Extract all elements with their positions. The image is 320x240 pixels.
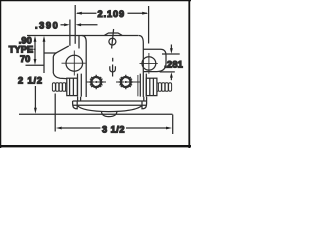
base center bump — [102, 112, 117, 117]
border frame — [0, 0, 191, 148]
3 1/2 left extension line — [54, 94, 56, 132]
psi mark on centerline — [110, 65, 116, 77]
svg-text:70: 70 — [20, 54, 30, 64]
base step right — [144, 97, 147, 101]
dimension .281 lower arrow — [170, 72, 173, 80]
left knurled screw head — [86, 75, 106, 89]
left terminal stud threads — [52, 83, 67, 92]
cap bump on top — [105, 33, 123, 35]
ear-top extension tick — [45, 52, 57, 54]
right knurled screw head — [116, 75, 140, 89]
base lip right — [142, 101, 147, 109]
svg-text:3 1/2: 3 1/2 — [102, 124, 125, 134]
extension line right — [148, 6, 150, 44]
svg-text:.281: .281 — [164, 59, 183, 69]
extension line left (hole centerline ext) — [74, 5, 76, 44]
right terminal hex nut — [146, 78, 157, 95]
solenoid body outline — [82, 36, 144, 98]
left terminal hex nut — [67, 78, 78, 95]
svg-text:.390: .390 — [35, 21, 59, 31]
right terminal stud threads — [157, 83, 172, 92]
dimension 3 1/2 line with arrows — [56, 127, 172, 130]
dimension 2 1/2 lower line with down arrow — [34, 86, 37, 114]
right mounting ear — [143, 49, 166, 71]
left mounting ear — [53, 46, 69, 79]
base lip left — [73, 101, 78, 109]
top reference line / body top edge — [27, 35, 139, 37]
right hole crosshairs — [140, 53, 158, 74]
right ear hole — [142, 57, 156, 70]
dimension .390 arrows — [61, 23, 98, 26]
right terminal washer — [138, 74, 146, 97]
centerline dash — [112, 58, 114, 62]
extension tick for .390 / bracket strap left edge — [69, 20, 71, 46]
3 1/2 right extension line — [172, 115, 174, 135]
baseline (bottom reference line) — [19, 113, 173, 115]
.281 lower tick — [160, 71, 175, 73]
svg-text:2.109: 2.109 — [98, 9, 126, 19]
base bowl — [77, 105, 142, 111]
dimension .281 upper arrow — [170, 45, 173, 54]
centerline symbol — [109, 29, 116, 49]
base band — [73, 101, 147, 105]
.281 upper tick — [162, 53, 180, 55]
svg-text:2 1/2: 2 1/2 — [18, 76, 43, 86]
bottom tick of .90 (hole center level) — [26, 64, 45, 66]
bracket strap right edge — [78, 36, 80, 49]
dimension .90 vertical line with arrows — [34, 36, 37, 65]
left terminal washer — [78, 74, 82, 97]
base step left — [78, 97, 81, 101]
TYPE leader dash — [33, 48, 35, 50]
dimension 2.109 dim line with arrows — [76, 12, 148, 15]
left hole crosshairs — [62, 51, 86, 76]
dimension 2 1/2 upper line with up arrow — [43, 36, 46, 73]
left ear hole — [66, 55, 83, 71]
